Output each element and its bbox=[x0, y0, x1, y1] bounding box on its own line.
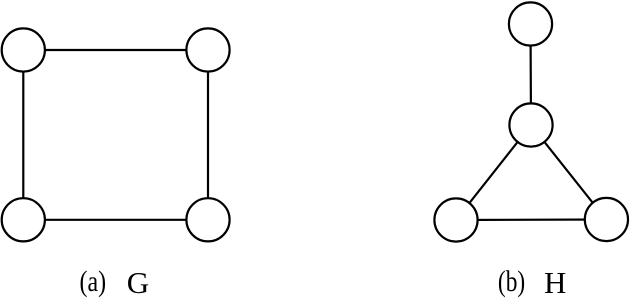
node G top-right bbox=[186, 28, 229, 71]
node H middle bbox=[509, 103, 552, 146]
node H bottom-right bbox=[585, 198, 628, 241]
wire bbox=[531, 125, 606, 220]
node G bottom-right bbox=[186, 198, 229, 241]
wire bbox=[23, 49, 208, 51]
svg-text:G: G bbox=[127, 265, 149, 298]
wire bbox=[529, 24, 532, 125]
wire bbox=[456, 218, 606, 221]
svg-text:(b): (b) bbox=[498, 264, 525, 297]
node G bottom-left bbox=[2, 198, 45, 241]
wire bbox=[456, 125, 531, 220]
wire bbox=[207, 50, 209, 220]
wire bbox=[22, 50, 24, 220]
node H bottom-left bbox=[434, 198, 477, 241]
node H top bbox=[509, 2, 552, 45]
wire bbox=[23, 219, 208, 221]
svg-text:H: H bbox=[544, 265, 566, 298]
node G top-left bbox=[2, 28, 45, 71]
svg-text:(a): (a) bbox=[80, 264, 107, 297]
